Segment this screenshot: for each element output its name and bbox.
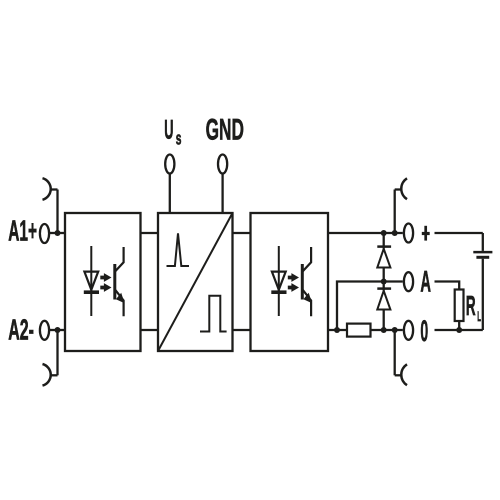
wire up to plug top-right <box>394 190 396 234</box>
svg-text:L: L <box>477 308 481 324</box>
converter diagonal <box>158 213 233 351</box>
label plus vertical <box>424 226 427 241</box>
optocoupler U1 light arrow 1 <box>100 273 111 282</box>
wire box2-box3 bottom <box>233 329 251 331</box>
node RL bottom <box>456 327 462 333</box>
plug contact lower-right arc <box>401 364 407 385</box>
optocoupler U3 phototransistor collector <box>302 247 311 272</box>
wire box3 to terminal plus <box>328 232 403 234</box>
optocoupler U1 phototransistor emitter <box>115 289 124 316</box>
label plus horizontal <box>422 232 430 235</box>
wire GND to box2 <box>221 173 223 213</box>
node diode chain bottom <box>381 327 387 333</box>
wire Us to box2 <box>169 173 171 213</box>
svg-text:0: 0 <box>420 315 428 348</box>
svg-text:U: U <box>164 115 173 145</box>
svg-text:R: R <box>466 290 476 321</box>
wire down to plug bottom-right <box>394 330 396 375</box>
optocoupler U3 phototransistor base bar <box>301 264 304 300</box>
box U3 output optocoupler <box>251 213 329 351</box>
node bottom-left junction <box>334 327 340 333</box>
wire box2-box3 top <box>233 232 251 234</box>
node diode chain top <box>381 230 387 236</box>
plug contact lower-right tick <box>395 374 402 376</box>
wire box3 to resistor <box>328 329 347 331</box>
wire A2 to box1 <box>50 329 65 331</box>
optocoupler U3 light arrow 2 <box>288 283 299 292</box>
wire plus to battery <box>435 232 483 234</box>
plug contact upper-right tick <box>395 188 402 190</box>
wire box1-box2 top <box>141 232 159 234</box>
svg-text:A: A <box>420 266 431 299</box>
wire A to RL <box>435 282 460 290</box>
converter input spike symbol <box>167 233 190 266</box>
wire battery bottom lead <box>482 259 484 330</box>
wire battery top lead <box>482 233 484 251</box>
diode D1 wire top <box>383 233 385 249</box>
terminal plus <box>404 224 413 243</box>
optocoupler U3 LED triangle <box>272 272 286 290</box>
plug contact upper-left arc <box>43 178 51 200</box>
wire RL to 0 <box>458 321 460 330</box>
plug contact lower-left tick <box>51 374 58 376</box>
optocoupler U3 LED anode line <box>278 246 280 316</box>
node A1 junction <box>55 230 61 236</box>
diode D2 wire bottom <box>383 310 385 331</box>
optocoupler U1 phototransistor collector <box>115 247 124 272</box>
terminal A1 <box>40 224 49 243</box>
svg-text:A2-: A2- <box>8 314 34 346</box>
diode D1 wire bottom <box>383 268 385 282</box>
optocoupler U1 LED cathode bar <box>84 290 99 294</box>
optocoupler U3 phototransistor emitter <box>302 289 311 316</box>
box U1 input optocoupler <box>65 213 141 351</box>
optocoupler U1 LED triangle <box>84 272 98 290</box>
optocoupler U3 LED cathode bar <box>271 290 286 294</box>
terminal GND <box>218 155 227 174</box>
wire A1 junction up to plug <box>56 190 58 234</box>
optocoupler U1 LED anode line <box>90 246 92 316</box>
diode D2 wire top <box>383 282 385 291</box>
terminal 0 <box>404 321 413 340</box>
wire box1-box2 bottom <box>141 329 159 331</box>
diode D2 triangle <box>377 291 390 310</box>
box U2 power/signal converter <box>158 213 233 351</box>
optocoupler U1 light arrow 2 <box>100 283 111 292</box>
resistor R1 body <box>347 324 371 337</box>
svg-text:A1+: A1+ <box>8 216 37 248</box>
converter output pulse symbol <box>200 296 227 332</box>
node plug top-right <box>392 230 398 236</box>
resistor RL body <box>455 290 464 322</box>
terminal A <box>404 272 413 291</box>
optocoupler U1 phototransistor base bar <box>113 264 116 300</box>
svg-text:s: s <box>176 128 182 148</box>
terminal A2 <box>40 321 49 340</box>
wire A1 to box1 <box>50 232 65 234</box>
wire A2 junction down to plug <box>56 330 58 375</box>
wire resistor to terminal 0 <box>371 329 403 331</box>
node plug bottom-right <box>392 327 398 333</box>
battery BT1 long plate <box>473 251 492 254</box>
diode D1 cathode bar <box>377 245 391 248</box>
wire 0 to battery return <box>435 329 483 331</box>
plug contact upper-left tick <box>51 188 58 190</box>
optocoupler U3 emitter arrowhead <box>303 293 312 303</box>
diode D2 cathode bar <box>377 287 391 290</box>
wire terminal A row <box>337 282 403 331</box>
plug contact lower-left arc <box>43 364 51 386</box>
optocoupler U3 light arrow 1 <box>288 273 299 282</box>
optocoupler U1 emitter arrowhead <box>116 293 125 303</box>
battery BT1 short plate <box>476 256 489 259</box>
node A2 junction <box>55 327 61 333</box>
node A junction diode <box>381 279 387 285</box>
terminal Us <box>165 155 174 174</box>
diode D1 triangle <box>377 249 390 268</box>
plug contact upper-right arc <box>401 178 407 199</box>
svg-text:GND: GND <box>206 114 244 147</box>
